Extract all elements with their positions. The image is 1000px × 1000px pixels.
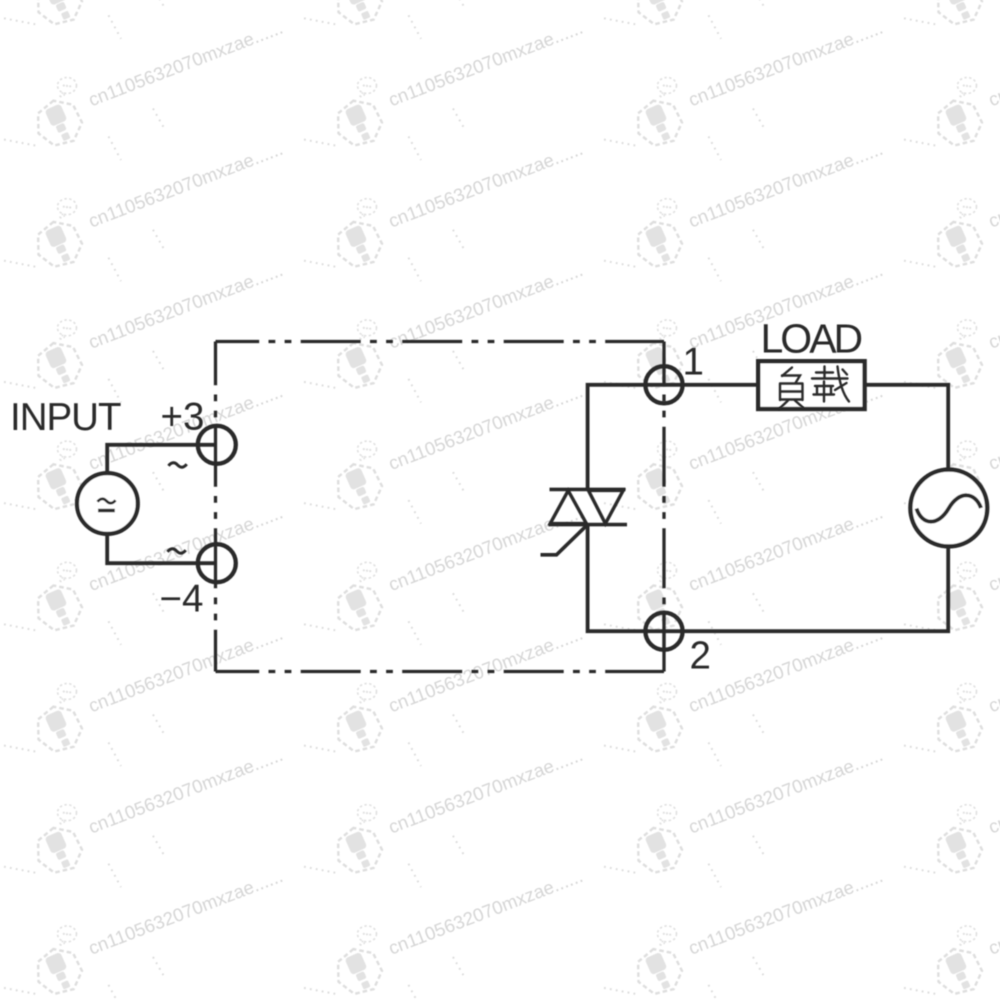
svg-text:LOAD: LOAD	[761, 316, 862, 362]
svg-text:+3: +3	[161, 396, 205, 439]
svg-text:1: 1	[683, 341, 704, 384]
svg-text:−4: −4	[160, 578, 204, 621]
svg-text:INPUT: INPUT	[10, 396, 121, 439]
svg-text:2: 2	[690, 635, 711, 678]
